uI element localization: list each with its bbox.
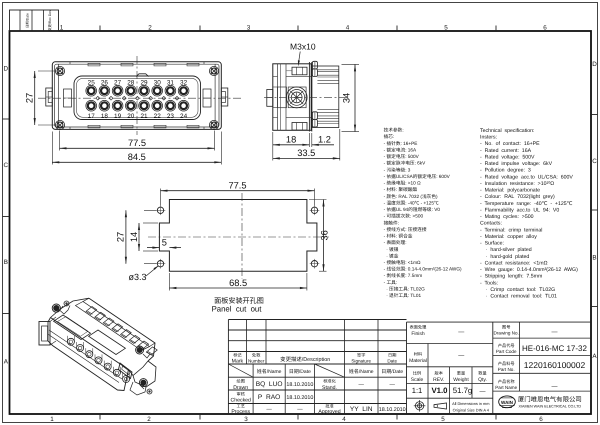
dimension 14 left of cutout <box>129 223 158 251</box>
svg-text:68.5: 68.5 <box>229 278 247 288</box>
technical specification english column <box>480 128 578 300</box>
svg-text:版本: 版本 <box>435 371 444 376</box>
svg-text:21: 21 <box>140 113 148 120</box>
svg-text:- 接线方式: 压接连接: - 接线方式: 压接连接 <box>384 227 427 232</box>
label diameter 3.3 with leader <box>128 265 158 282</box>
svg-text:· 镀金: · 镀金 <box>384 253 399 258</box>
isometric left flange bracket <box>39 317 56 345</box>
svg-text:· Crimp contact tool: TL02: · Crimp contact tool: TL02G <box>480 287 555 293</box>
svg-text:- Terminal: crimp terminal: - Terminal: crimp terminal <box>480 227 542 233</box>
dimension 77.5 under front view <box>60 131 215 151</box>
zone letters right <box>592 61 597 360</box>
svg-text:技术参数:: 技术参数: <box>384 128 404 133</box>
svg-text:- 线径范围: 0.14-4.0mm²(26-12 AWG): - 线径范围: 0.14-4.0mm²(26-12 AWG) <box>384 267 462 272</box>
svg-text:审核: 审核 <box>237 391 246 396</box>
dimension 27 left of front view <box>25 71 57 125</box>
dimension 33.5 under side view <box>273 129 340 161</box>
svg-text:D: D <box>4 65 9 72</box>
svg-text:- 颜色: RAL 7032 (浅灰色): - 颜色: RAL 7032 (浅灰色) <box>384 194 438 199</box>
side view insert guide piece <box>278 87 287 108</box>
svg-text:B: B <box>4 259 8 266</box>
svg-text:Date: Date <box>387 359 397 364</box>
svg-text:- 依据UL/CSA的额定电压: 600V: - 依据UL/CSA的额定电压: 600V <box>384 174 451 179</box>
svg-text:比例: 比例 <box>413 371 421 376</box>
side view center screw detail <box>286 87 307 108</box>
zone tick marks right <box>591 115 598 307</box>
svg-text:Drawing No.: Drawing No. <box>494 331 519 336</box>
isometric top face big openings <box>54 315 126 355</box>
svg-text:1: 1 <box>60 25 64 32</box>
row drawn <box>233 379 395 391</box>
svg-text:变更描述/Description: 变更描述/Description <box>280 356 330 363</box>
side view M3 screw head top <box>287 67 308 75</box>
title block diagonal cells row2 <box>228 364 344 377</box>
front view vertical centerline <box>136 56 138 135</box>
svg-text:18: 18 <box>101 113 109 120</box>
row process approved <box>231 403 405 415</box>
svg-text:—: — <box>266 406 272 412</box>
zone tick marks bottom <box>100 414 496 420</box>
cutout vertical centerline <box>241 193 243 279</box>
svg-text:30: 30 <box>154 80 162 87</box>
svg-text:2: 2 <box>148 25 152 32</box>
svg-text:33.5: 33.5 <box>297 148 315 158</box>
svg-text:- No. of contact: 16+PE: - No. of contact: 16+PE <box>480 141 540 147</box>
isometric view 3d connector body <box>48 298 155 390</box>
svg-text:34: 34 <box>342 93 352 103</box>
side view M3 screw head bottom <box>292 123 307 131</box>
dimension 18 under side view <box>273 132 310 161</box>
label M3x10 with leader <box>290 42 316 67</box>
svg-text:27: 27 <box>25 93 35 103</box>
isometric terminal circles row <box>67 336 129 383</box>
svg-text:20: 20 <box>127 113 135 120</box>
dimension 1.2 under side view <box>312 133 334 147</box>
svg-text:- Wire gauge: 0.14-4.0mm²(2: - Wire gauge: 0.14-4.0mm²(26-12 AWG) <box>480 267 578 273</box>
svg-text:14: 14 <box>129 232 139 242</box>
front view right latch <box>221 88 228 106</box>
svg-text:18: 18 <box>286 135 296 145</box>
svg-text:姓名/Name: 姓名/Name <box>349 368 374 375</box>
title block grid lines <box>228 320 591 415</box>
front view fixing screw top-right <box>209 66 218 75</box>
technical specification chinese column <box>384 128 462 299</box>
svg-text:- Rated impulse voltage: 6: - Rated impulse voltage: 6kV <box>480 161 553 167</box>
svg-text:Insters:: Insters: <box>480 135 497 141</box>
svg-text:28: 28 <box>127 80 135 87</box>
svg-text:31: 31 <box>167 80 175 87</box>
svg-text:- 额定脉冲电压: 6kV: - 额定脉冲电压: 6kV <box>384 161 427 166</box>
front view fixing screw bottom-right <box>209 120 218 129</box>
svg-text:产品代号: 产品代号 <box>498 343 515 348</box>
dimension 36 right of cutout <box>309 200 330 272</box>
svg-text:· 镀银: · 镀银 <box>384 247 399 252</box>
svg-text:· Contact removal tool: TL: · Contact removal tool: TL01 <box>480 294 557 300</box>
svg-text:Stand.: Stand. <box>322 385 337 391</box>
svg-text:—: — <box>297 406 303 412</box>
svg-text:—: — <box>480 389 486 395</box>
svg-text:C: C <box>592 158 597 165</box>
svg-text:图号: 图号 <box>502 324 510 329</box>
svg-text:Weight: Weight <box>453 377 469 383</box>
svg-text:25: 25 <box>88 80 96 87</box>
svg-text:- 工具:: - 工具: <box>384 280 398 285</box>
dimension 77.5 above cutout <box>161 181 315 206</box>
svg-text:77.5: 77.5 <box>228 181 246 191</box>
svg-text:工艺: 工艺 <box>237 403 245 408</box>
dimension 84.5 under front view <box>52 132 221 165</box>
svg-text:- Material: copper alloy: - Material: copper alloy <box>480 234 537 240</box>
pin 31 <box>165 85 176 96</box>
svg-text:26: 26 <box>101 80 109 87</box>
svg-text:- 额定电流: 16A: - 额定电流: 16A <box>384 147 417 152</box>
svg-text:32: 32 <box>180 80 188 87</box>
svg-text:材料: 材料 <box>414 352 423 357</box>
svg-text:29: 29 <box>140 80 148 87</box>
svg-text:All Dimensions in mm: All Dimensions in mm <box>452 401 489 406</box>
svg-text:标准化: 标准化 <box>323 379 336 384</box>
svg-text:BQ LUO: BQ LUO <box>256 381 283 388</box>
svg-text:Mark: Mark <box>232 359 244 365</box>
svg-text:日期/Date: 日期/Date <box>381 368 403 375</box>
svg-text:- Contact resistance: <1mΩ: - Contact resistance: <1mΩ <box>480 260 548 266</box>
svg-text:姓名/Name: 姓名/Name <box>257 368 282 375</box>
dimension 68.5 under cutout <box>169 273 307 291</box>
projection symbol cone <box>434 403 447 409</box>
svg-text:18.10.2010: 18.10.2010 <box>379 407 406 413</box>
svg-text:数量: 数量 <box>478 371 486 376</box>
svg-text:Scale: Scale <box>411 377 424 383</box>
pin 23 <box>165 100 176 111</box>
front view fixing screw bottom-left <box>55 120 64 129</box>
svg-text:Signature: Signature <box>351 359 371 364</box>
pin 18 <box>99 100 110 111</box>
svg-text:XIAMEN WAIN ELECTRICAL CO.LTD: XIAMEN WAIN ELECTRICAL CO.LTD <box>519 405 582 409</box>
front view horizontal centerline <box>38 97 243 99</box>
svg-text:Panel cut out: Panel cut out <box>212 305 263 314</box>
row checked <box>230 391 313 403</box>
svg-text:—: — <box>390 382 396 388</box>
svg-text:- Temperature range: -40℃: - Temperature range: -40℃ - +125℃ <box>480 201 573 207</box>
svg-text:M3x10: M3x10 <box>290 42 316 52</box>
svg-text:77.5: 77.5 <box>128 138 146 148</box>
svg-text:- Rated voltage acc.to UL/: - Rated voltage acc.to UL/CSA: 600V <box>480 174 573 180</box>
isometric right latch <box>119 363 133 379</box>
svg-text:- Tools:: - Tools: <box>480 280 498 286</box>
svg-text:- Rated voltage: 500V: - Rated voltage: 500V <box>480 154 535 160</box>
svg-text:- 额定电压: 500V: - 额定电压: 500V <box>384 154 420 159</box>
svg-text:22: 22 <box>154 113 162 120</box>
svg-text:36: 36 <box>320 230 330 240</box>
note all dimensions <box>452 401 490 413</box>
svg-text:V1.0: V1.0 <box>431 386 448 395</box>
svg-text:- 绝缘电阻: >10 Ω: - 绝缘电阻: >10 Ω <box>384 181 421 186</box>
svg-text:5: 5 <box>444 25 448 32</box>
zone tick marks left <box>3 119 10 314</box>
svg-text:23: 23 <box>167 113 175 120</box>
svg-text:—: — <box>552 384 558 390</box>
svg-text:重量: 重量 <box>457 371 465 376</box>
isometric right end flange <box>130 361 156 395</box>
svg-text:- 依据UL 94的阻燃等级: V0: - 依据UL 94的阻燃等级: V0 <box>384 207 441 212</box>
svg-text:- 剥线长度: 7.5mm: - 剥线长度: 7.5mm <box>384 273 423 278</box>
svg-text:Number: Number <box>248 359 265 364</box>
pin numbers top row <box>88 80 188 87</box>
pin 21 <box>139 100 150 111</box>
svg-text:- 材料: 铜合金: - 材料: 铜合金 <box>384 234 413 239</box>
svg-text:6: 6 <box>539 416 543 423</box>
svg-text:WAIN: WAIN <box>501 400 514 405</box>
svg-text:标记: 标记 <box>233 352 242 357</box>
svg-text:- Surface:: - Surface: <box>480 241 504 247</box>
svg-text:Finish: Finish <box>411 331 425 337</box>
dimension 34 right of side view <box>342 64 360 131</box>
svg-text:17: 17 <box>88 113 96 120</box>
svg-text:- Material: polycarbonate: - Material: polycarbonate <box>480 188 540 194</box>
svg-text:Part Name: Part Name <box>495 385 517 390</box>
svg-text:18.10.2010: 18.10.2010 <box>286 382 313 388</box>
svg-text:· 压接工具: TL02G: · 压接工具: TL02G <box>384 286 426 291</box>
svg-text:绘图: 绘图 <box>237 379 245 384</box>
svg-text:1:1: 1:1 <box>412 386 423 395</box>
dimension 5 notch depth <box>147 238 181 249</box>
pin 28 <box>125 85 136 96</box>
front view left latch <box>46 88 53 106</box>
pin 20 <box>125 100 136 111</box>
pin 27 <box>112 85 123 96</box>
pin numbers bottom row <box>88 113 188 120</box>
mounting hole top-right <box>310 206 320 216</box>
side view horizontal centerline <box>264 96 347 98</box>
isometric top face slots <box>86 307 157 355</box>
svg-text:YY LIN: YY LIN <box>350 406 373 413</box>
cutout horizontal centerline <box>148 236 329 238</box>
svg-text:ø3.3: ø3.3 <box>128 272 146 282</box>
isometric dark screws <box>52 301 152 394</box>
svg-text:- 污染等级: 3: - 污染等级: 3 <box>384 167 411 172</box>
svg-text:- 表面处理:: - 表面处理: <box>384 240 407 245</box>
svg-text:1: 1 <box>50 416 54 423</box>
svg-text:3: 3 <box>244 416 248 423</box>
svg-text:- 可插拔次数: >500: - 可插拔次数: >500 <box>384 214 424 219</box>
svg-text:Technical specification:: Technical specification: <box>480 128 535 134</box>
svg-text:27: 27 <box>116 232 126 242</box>
svg-text:插芯:: 插芯: <box>384 134 395 139</box>
panel cutout outline <box>159 200 317 272</box>
svg-text:19: 19 <box>114 113 122 120</box>
svg-text:- Pollution degree: 3: - Pollution degree: 3 <box>480 168 531 174</box>
svg-text:Qty.: Qty. <box>478 377 487 383</box>
svg-text:—: — <box>552 330 558 336</box>
pin 30 <box>152 85 163 96</box>
front view insert side keys <box>64 89 212 107</box>
coding diamonds between pins <box>96 96 179 100</box>
zone numbers top <box>60 25 548 32</box>
svg-text:厦门唯恩电气有限公司: 厦门唯恩电气有限公司 <box>518 396 582 404</box>
side view rear bolt heads <box>312 61 317 127</box>
side view left latch edge-on <box>267 90 273 107</box>
svg-text:1220160100002: 1220160100002 <box>524 360 586 370</box>
svg-text:日期/Date: 日期/Date <box>26 13 30 28</box>
svg-text:18.10.2010: 18.10.2010 <box>286 395 313 401</box>
svg-text:· 退针工具: TL01: · 退针工具: TL01 <box>384 293 422 298</box>
svg-text:- Flammability acc.to UL 9: - Flammability acc.to UL 94: V0 <box>480 207 559 213</box>
front view fixing screw top-left <box>55 66 64 75</box>
zone letters left <box>4 65 9 365</box>
pin 26 <box>99 85 110 96</box>
svg-text:HE-016-MC 17-32: HE-016-MC 17-32 <box>522 344 587 353</box>
svg-text:24: 24 <box>180 113 188 120</box>
svg-text:变更/Rev Des: 变更/Rev Des <box>48 10 52 31</box>
svg-text:· hard-gold plated: · hard-gold plated <box>480 254 529 260</box>
pin 25 <box>86 85 97 96</box>
svg-text:Approved: Approved <box>318 409 340 415</box>
svg-text:Part Code: Part Code <box>496 349 517 354</box>
svg-text:1.2: 1.2 <box>318 134 331 144</box>
svg-text:产品料号: 产品料号 <box>498 361 515 366</box>
svg-text:- Rated current: 16A: - Rated current: 16A <box>480 148 532 154</box>
side view rear section outline <box>312 62 339 132</box>
mounting hole bottom-left <box>156 259 166 269</box>
front view insert outline <box>74 74 201 120</box>
svg-text:表面处理: 表面处理 <box>410 325 428 330</box>
svg-text:REV.: REV. <box>433 377 444 383</box>
svg-text:C: C <box>4 162 9 169</box>
pin 17 <box>86 100 97 111</box>
svg-text:- Mating cycles: >500: - Mating cycles: >500 <box>480 214 534 220</box>
pin 19 <box>112 100 123 111</box>
svg-text:6: 6 <box>543 25 547 32</box>
pin 24 <box>178 100 189 111</box>
svg-text:- Stripping length: 7.5mm: - Stripping length: 7.5mm <box>480 274 542 280</box>
pin 22 <box>152 100 163 111</box>
svg-text:P RAO: P RAO <box>258 394 280 401</box>
zone tick marks top <box>100 26 496 32</box>
pin 29 <box>139 85 150 96</box>
svg-text:Contacts:: Contacts: <box>480 221 502 227</box>
svg-text:D: D <box>592 61 597 68</box>
svg-text:签字: 签字 <box>357 352 365 357</box>
dimension 27 left of cutout <box>116 210 156 263</box>
svg-text:4: 4 <box>346 25 350 32</box>
svg-text:· hard-silver plated: · hard-silver plated <box>480 247 532 253</box>
svg-text:批准: 批准 <box>325 403 333 408</box>
front view top cover plate tabs <box>88 63 199 128</box>
front view connector body <box>52 62 221 130</box>
pin 32 <box>178 85 189 96</box>
svg-text:- 材料: 聚碳酸酯: - 材料: 聚碳酸酯 <box>384 187 418 192</box>
svg-text:- Insulation resistance: >1: - Insulation resistance: >10¹⁰Ω <box>480 181 554 187</box>
svg-text:- 插针数: 16+PE: - 插针数: 16+PE <box>384 141 418 146</box>
svg-text:3: 3 <box>247 25 251 32</box>
svg-text:5: 5 <box>441 416 445 423</box>
revision strip table top-left <box>10 10 59 31</box>
projection symbol first angle <box>414 400 426 412</box>
svg-text:日期: 日期 <box>388 352 396 357</box>
svg-text:2: 2 <box>147 416 151 423</box>
svg-text:接触件:: 接触件: <box>384 220 399 225</box>
svg-text:- 温度范围: -40℃ - +125℃: - 温度范围: -40℃ - +125℃ <box>384 200 439 205</box>
zone numbers bottom <box>50 416 543 423</box>
svg-text:- Colour: RAL 7032(light g: - Colour: RAL 7032(light grey) <box>480 194 555 200</box>
wain logo <box>499 396 516 408</box>
svg-text:Material: Material <box>409 358 427 364</box>
isometric screw mount necks <box>60 306 150 390</box>
mounting hole top-left <box>156 206 166 216</box>
side view rear terminal lines <box>317 70 338 124</box>
svg-text:—: — <box>359 382 365 388</box>
svg-text:Part No.: Part No. <box>498 367 515 372</box>
svg-text:51.7g: 51.7g <box>453 386 473 395</box>
svg-text:27: 27 <box>114 80 122 87</box>
svg-text:日期/Date: 日期/Date <box>289 368 311 375</box>
svg-text:Process: Process <box>231 409 250 415</box>
svg-text:5: 5 <box>162 238 167 248</box>
svg-text:Original Size DIN A 4: Original Size DIN A 4 <box>453 407 490 412</box>
svg-text:Drawn: Drawn <box>233 385 248 391</box>
svg-text:—: — <box>458 353 464 359</box>
svg-text:B: B <box>592 255 596 262</box>
mounting hole bottom-right <box>310 259 320 269</box>
svg-text:4: 4 <box>342 416 346 423</box>
svg-text:产品名称: 产品名称 <box>498 379 516 384</box>
svg-text:处数: 处数 <box>252 352 261 357</box>
svg-text:84.5: 84.5 <box>128 152 146 162</box>
svg-text:- 接触电阻: <1mΩ: - 接触电阻: <1mΩ <box>384 260 421 265</box>
side view front body block <box>273 62 311 132</box>
svg-text:—: — <box>458 330 464 336</box>
